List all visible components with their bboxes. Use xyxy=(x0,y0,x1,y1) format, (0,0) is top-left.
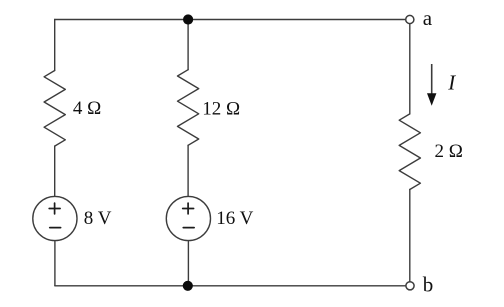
V1 plus sign xyxy=(49,203,60,214)
wire bottom horizontal xyxy=(55,285,406,287)
svg-text:16 V: 16 V xyxy=(216,208,253,229)
terminal a open circle xyxy=(406,15,414,23)
wire left branch middle xyxy=(54,146,56,196)
svg-text:2 Ω: 2 Ω xyxy=(435,141,463,162)
svg-text:a: a xyxy=(423,6,433,30)
V1 minus sign xyxy=(50,227,61,229)
resistor R1 4ohm zigzag xyxy=(44,71,65,147)
V2 plus sign xyxy=(183,203,194,214)
wire middle branch middle xyxy=(187,145,189,196)
resistor R3 2ohm zigzag xyxy=(399,114,420,190)
svg-text:12 Ω: 12 Ω xyxy=(202,98,240,119)
svg-text:8 V: 8 V xyxy=(84,208,112,229)
svg-text:4 Ω: 4 Ω xyxy=(73,98,101,119)
junction dot bottom node xyxy=(183,281,193,291)
wire left branch lower xyxy=(54,241,56,286)
V2 minus sign xyxy=(183,227,194,229)
wire left branch upper xyxy=(54,20,56,71)
voltage source V2 16V circle xyxy=(166,196,210,240)
wire top horizontal xyxy=(55,19,406,21)
resistor R2 12ohm zigzag xyxy=(178,70,199,146)
wire right branch lower xyxy=(409,190,411,282)
wire right branch upper xyxy=(409,24,411,114)
wire middle branch lower xyxy=(187,241,189,286)
svg-text:b: b xyxy=(423,273,434,297)
svg-text:I: I xyxy=(447,71,456,95)
terminal b open circle xyxy=(406,282,414,290)
wire middle branch upper xyxy=(187,20,189,70)
current arrow I xyxy=(427,64,436,106)
junction dot top node xyxy=(183,14,193,24)
voltage source V1 8V circle xyxy=(33,196,77,240)
